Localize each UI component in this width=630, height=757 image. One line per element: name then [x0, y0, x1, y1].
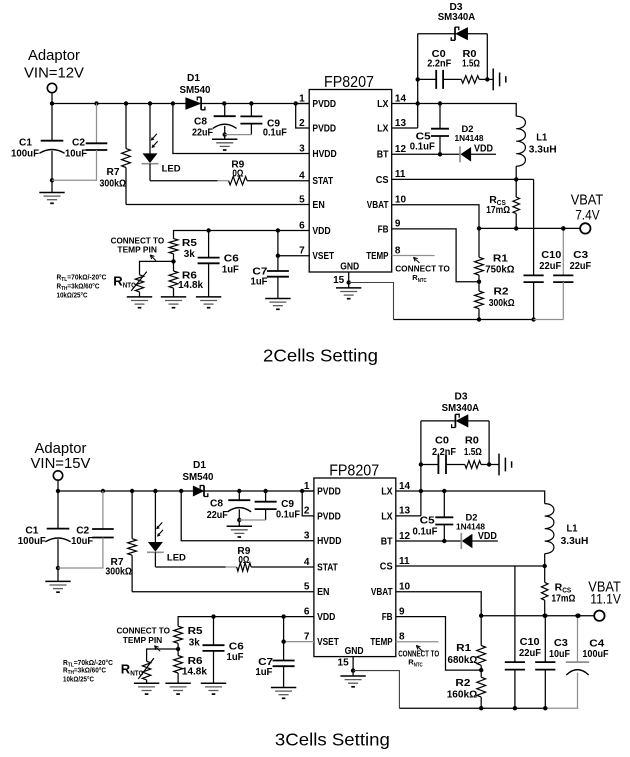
wire C2 to C1 ground join: [52, 150, 97, 180]
thermistor RNTC: [140, 261, 174, 274]
ground below C7: [265, 299, 290, 310]
inductor L1 3.3uH: [516, 116, 525, 166]
wire snubber loop left vertical: [420, 421, 422, 516]
svg-text:FB: FB: [382, 612, 393, 623]
node snubber bottom-left junction: [419, 462, 423, 466]
svg-text:RNTC: RNTC: [121, 661, 144, 677]
svg-text:D1: D1: [193, 459, 206, 471]
svg-text:3k: 3k: [189, 637, 200, 649]
wire CS pin 11: [392, 178, 534, 180]
svg-text:SM540: SM540: [183, 471, 214, 483]
svg-text:STAT: STAT: [312, 176, 333, 187]
wire snubber top: [418, 33, 455, 35]
wire GND to bottom return rail: [349, 283, 394, 320]
svg-text:2Cells Setting: 2Cells Setting: [263, 346, 378, 366]
resistor RCS 17mohm: [544, 566, 546, 582]
svg-text:8: 8: [395, 245, 401, 256]
wire VIN rail left of D1: [52, 103, 186, 105]
wire VBAT pin 10 elbow: [392, 205, 479, 229]
svg-text:CS: CS: [380, 561, 393, 572]
svg-text:10: 10: [399, 582, 411, 593]
wire VIN rail to HVDD pin 3: [173, 104, 309, 154]
svg-text:13: 13: [399, 506, 411, 517]
svg-text:22uF: 22uF: [192, 127, 213, 139]
inductor L1 3.3uH: [545, 504, 554, 554]
svg-text:R1: R1: [456, 642, 471, 654]
svg-text:BT: BT: [381, 536, 393, 547]
svg-text:1: 1: [304, 481, 310, 492]
svg-text:VSET: VSET: [312, 251, 334, 262]
ground right of R0 (rotated): [499, 454, 512, 476]
wire GND pin to ground: [348, 272, 350, 283]
svg-text:VIN=15V: VIN=15V: [31, 455, 91, 472]
svg-text:D1: D1: [187, 72, 200, 84]
terminal VBAT output: [580, 223, 590, 233]
wire VIN rail to HVDD pin 3: [181, 491, 314, 541]
wire VIN terminal to rail: [57, 480, 59, 491]
svg-text:LX: LX: [377, 123, 389, 134]
svg-text:0Ω: 0Ω: [238, 554, 249, 566]
ground below C8: [212, 139, 237, 150]
resistor R1 750k&#937;: [478, 228, 480, 257]
svg-text:12: 12: [399, 531, 411, 542]
wire snubber top: [421, 420, 456, 422]
LED indicator: [149, 104, 151, 154]
svg-text:9: 9: [395, 219, 401, 230]
svg-text:PVDD: PVDD: [312, 123, 336, 134]
svg-text:1uF: 1uF: [251, 275, 269, 287]
svg-text:C0: C0: [435, 435, 449, 447]
wire R7 to EN pin 5: [132, 591, 314, 593]
wire GND pin to ground: [352, 657, 354, 671]
wire D2 anode to VDD net: [471, 153, 496, 155]
wire CS pin 11: [396, 565, 545, 567]
svg-text:2.2nF: 2.2nF: [432, 446, 457, 458]
ground at pin 15: [336, 288, 361, 299]
svg-text:L1: L1: [536, 132, 547, 144]
capacitor C3: [562, 228, 564, 275]
svg-text:R5: R5: [182, 237, 197, 249]
capacitor C0: [418, 78, 437, 80]
svg-text:VDD: VDD: [474, 144, 493, 155]
svg-text:Adaptor: Adaptor: [28, 47, 80, 64]
capacitor C7: [277, 231, 279, 272]
capacitor C9: [250, 104, 252, 117]
capacitor C6: [208, 231, 210, 258]
wire snubber right vertical: [486, 34, 488, 80]
svg-text:13: 13: [395, 118, 407, 129]
wire D2 anode to VDD net: [472, 540, 498, 542]
svg-text:RNTC: RNTC: [408, 658, 423, 669]
svg-text:0.1uF: 0.1uF: [276, 509, 301, 521]
terminal VBAT output: [594, 611, 604, 621]
svg-text:15: 15: [333, 275, 345, 286]
svg-text:VSET: VSET: [317, 637, 339, 648]
svg-text:FB: FB: [378, 224, 389, 235]
svg-text:14.8k: 14.8k: [178, 279, 203, 291]
node snubber bottom-left junction: [416, 77, 420, 81]
capacitor C5: [439, 104, 441, 129]
svg-text:CONNECT TO: CONNECT TO: [116, 626, 170, 635]
capacitor C7: [283, 617, 285, 661]
svg-text:14: 14: [399, 481, 411, 492]
svg-text:R7: R7: [107, 166, 120, 178]
svg-text:4: 4: [299, 171, 305, 182]
svg-text:BT: BT: [377, 150, 389, 161]
svg-text:R5: R5: [188, 625, 203, 637]
svg-text:FP8207: FP8207: [329, 463, 379, 480]
svg-text:PVDD: PVDD: [317, 511, 341, 522]
diode D2 1N4148: [459, 146, 461, 162]
svg-text:1N4148: 1N4148: [455, 133, 484, 143]
svg-text:680kΩ: 680kΩ: [448, 654, 478, 666]
wire VDD pin 6 to R5: [174, 231, 310, 239]
ground below RNTC: [134, 683, 159, 694]
svg-text:14: 14: [395, 93, 407, 104]
resistor R9: [229, 177, 248, 185]
capacitor C2: [96, 104, 98, 144]
svg-text:100uF: 100uF: [582, 648, 609, 660]
capacitor C2: [102, 491, 104, 529]
svg-text:HVDD: HVDD: [312, 149, 336, 160]
wire LX pin 14 to inductor: [396, 491, 545, 504]
svg-text:R0: R0: [465, 435, 479, 447]
wire TEMP pin 8 stub: [396, 641, 439, 643]
svg-text:R2: R2: [455, 677, 470, 689]
svg-text:TEMP PIN: TEMP PIN: [117, 246, 157, 255]
svg-text:0.1uF: 0.1uF: [263, 127, 288, 139]
svg-text:300kΩ: 300kΩ: [105, 566, 131, 578]
wire FB pin 9 to divider: [396, 617, 481, 671]
resistor R6 14.8k: [177, 649, 179, 656]
svg-text:4: 4: [304, 557, 310, 568]
wire R9 to STAT pin 4: [247, 180, 309, 182]
svg-text:3Cells Setting: 3Cells Setting: [275, 730, 390, 750]
wire ground return rail: [394, 319, 534, 321]
node VIN rail junctions: [50, 101, 54, 105]
svg-text:3.3uH: 3.3uH: [561, 535, 589, 547]
svg-text:VDD: VDD: [312, 226, 330, 237]
svg-text:LX: LX: [381, 511, 393, 522]
svg-text:R2: R2: [494, 286, 509, 298]
svg-text:3: 3: [299, 143, 305, 154]
terminal VIN adaptor input: [47, 83, 56, 92]
wire VIN rail left of D1: [58, 490, 193, 492]
capacitor C10 (CS net to ground): [514, 566, 516, 662]
svg-text:22uF: 22uF: [539, 260, 562, 272]
svg-text:CS: CS: [376, 175, 389, 186]
svg-text:1: 1: [299, 93, 305, 104]
wire VIN terminal to rail: [51, 92, 53, 103]
thermistor RNTC: [147, 649, 179, 661]
svg-text:TEMP: TEMP: [366, 251, 388, 262]
capacitor C3: [544, 616, 546, 662]
svg-text:12: 12: [395, 144, 407, 155]
svg-text:VDD: VDD: [478, 531, 497, 542]
diode D1 SM540: [193, 486, 204, 496]
wire BT pin 12 to D2: [392, 153, 460, 155]
svg-text:9: 9: [399, 606, 405, 617]
wire VBAT rail: [479, 227, 563, 229]
svg-text:VBAT: VBAT: [371, 587, 393, 598]
svg-text:22uF: 22uF: [207, 509, 228, 521]
diode D3 SM340A: [456, 415, 468, 427]
svg-text:SM340A: SM340A: [438, 11, 476, 23]
svg-text:LX: LX: [381, 486, 393, 497]
wire LX pin 13 stub: [392, 127, 418, 129]
wire LX pin 14 to inductor: [392, 104, 517, 117]
svg-text:1uF: 1uF: [222, 263, 240, 275]
svg-text:SM340A: SM340A: [442, 402, 480, 414]
arrow to R5/R6 junction: [155, 646, 161, 652]
svg-text:FP8207: FP8207: [324, 74, 374, 91]
resistor RCS 17mohm: [515, 179, 517, 197]
svg-text:EN: EN: [312, 200, 324, 211]
svg-text:100uF: 100uF: [11, 148, 40, 160]
svg-text:LED: LED: [162, 164, 181, 175]
svg-text:EN: EN: [317, 587, 329, 598]
wire LED to R9: [150, 180, 218, 182]
svg-text:CONNECT TO: CONNECT TO: [111, 237, 165, 246]
svg-text:D3: D3: [455, 391, 468, 403]
svg-text:0.1uF: 0.1uF: [413, 526, 439, 538]
svg-text:C8: C8: [210, 498, 223, 510]
svg-text:750kΩ: 750kΩ: [485, 264, 514, 276]
svg-text:5: 5: [299, 194, 305, 205]
svg-text:RNTC: RNTC: [412, 273, 427, 284]
svg-text:1.5Ω: 1.5Ω: [464, 446, 482, 458]
ground below C1: [39, 193, 64, 204]
svg-text:14.8k: 14.8k: [182, 666, 207, 678]
svg-text:10uF: 10uF: [65, 148, 88, 160]
svg-text:100uF: 100uF: [18, 535, 47, 547]
svg-text:2: 2: [304, 506, 310, 517]
resistor R0: [461, 76, 479, 84]
svg-text:15: 15: [338, 658, 350, 669]
svg-text:HVDD: HVDD: [317, 536, 341, 547]
capacitor C5: [443, 491, 445, 517]
svg-text:11: 11: [395, 169, 406, 180]
wire VSET pin 7 to C7: [278, 255, 309, 257]
svg-text:CONNECT TO: CONNECT TO: [398, 650, 439, 659]
svg-text:300kΩ: 300kΩ: [100, 178, 127, 190]
wire TEMP pin 8 stub: [392, 255, 435, 257]
diode D3 SM340A: [456, 28, 468, 40]
wire FB pin 9 to divider: [392, 229, 479, 282]
wire VDD pin 6 to R5: [178, 617, 314, 627]
node VIN rail junctions: [56, 489, 60, 493]
capacitor C9: [265, 491, 267, 502]
svg-text:22uF: 22uF: [519, 647, 542, 659]
svg-text:1uF: 1uF: [227, 651, 245, 663]
capacitor C10 (CS net to ground): [533, 179, 535, 275]
wire BT pin 12 to D2: [396, 540, 462, 542]
svg-text:CONNECT TO: CONNECT TO: [395, 264, 450, 274]
svg-text:22uF: 22uF: [570, 260, 592, 272]
svg-text:TEMP: TEMP: [370, 637, 392, 648]
svg-text:2.2nF: 2.2nF: [427, 58, 452, 70]
svg-text:17mΩ: 17mΩ: [551, 593, 575, 605]
capacitor C1: [57, 491, 59, 529]
svg-text:7: 7: [304, 631, 310, 642]
svg-text:5: 5: [304, 582, 310, 593]
svg-text:11: 11: [399, 556, 410, 567]
diode D2 1N4148: [460, 533, 462, 549]
svg-text:TEMP PIN: TEMP PIN: [123, 636, 163, 645]
wire rail to PVDD pin 2: [302, 491, 314, 516]
resistor R5 3k: [174, 626, 183, 643]
svg-text:1.5Ω: 1.5Ω: [462, 58, 480, 70]
wire GND to bottom return rail: [353, 671, 399, 709]
resistor R1 680k&#937;: [480, 616, 482, 646]
wire VBAT rail: [481, 615, 578, 617]
capacitor C8: [224, 104, 226, 117]
svg-text:17mΩ: 17mΩ: [486, 204, 510, 216]
svg-text:GND: GND: [345, 646, 364, 657]
svg-text:3.3uH: 3.3uH: [529, 143, 557, 155]
wire VIN rail right of D1 to pin 1: [204, 490, 314, 492]
resistor R2 300k&#937;: [478, 282, 480, 291]
svg-text:LED: LED: [167, 552, 186, 563]
wire rail to PVDD pin 2: [296, 104, 310, 129]
svg-text:VDD: VDD: [317, 612, 335, 623]
resistor R7: [131, 491, 133, 539]
svg-text:PVDD: PVDD: [317, 486, 341, 497]
ground below R6: [165, 683, 190, 694]
arrow to R5/R6 junction: [150, 255, 156, 261]
svg-text:10uF: 10uF: [71, 535, 94, 547]
wire LX pin 13 stub: [396, 515, 421, 517]
svg-text:0Ω: 0Ω: [232, 168, 243, 180]
svg-text:RNTC: RNTC: [113, 274, 136, 290]
svg-text:11.1V: 11.1V: [590, 591, 621, 607]
wire R0 to snubber ground: [481, 464, 499, 466]
wire VBAT pin 10 elbow: [396, 592, 481, 616]
svg-text:1uF: 1uF: [255, 666, 273, 678]
svg-text:6: 6: [299, 220, 305, 231]
capacitor C1: [51, 104, 53, 141]
ground below C7: [271, 688, 296, 699]
ground right of R0 (rotated): [493, 69, 506, 91]
svg-text:7.4V: 7.4V: [575, 206, 600, 222]
svg-text:2: 2: [299, 118, 305, 129]
wire VSET pin 7 to C7: [284, 641, 314, 643]
op-amp U1 FP8207 charger IC: [314, 478, 396, 657]
wire snubber loop left vertical: [417, 34, 419, 128]
wire ground return rail: [399, 707, 544, 709]
svg-text:SM540: SM540: [180, 84, 211, 96]
svg-text:7: 7: [299, 246, 305, 257]
resistor R5 3k: [169, 239, 178, 254]
wire snubber right vertical: [488, 421, 490, 465]
capacitor C8: [238, 491, 240, 500]
wire LED to R9: [155, 566, 225, 568]
svg-text:300kΩ: 300kΩ: [489, 297, 515, 309]
resistor R7: [125, 104, 127, 149]
svg-text:LX: LX: [377, 99, 389, 110]
ground below C8: [227, 526, 252, 537]
resistor R6 14.8k: [173, 261, 175, 271]
resistor R2 160k&#937;: [480, 670, 482, 677]
svg-text:VIN=12V: VIN=12V: [24, 64, 84, 81]
capacitor C4: [577, 616, 579, 662]
ground below RNTC: [127, 297, 152, 308]
svg-text:8: 8: [399, 632, 405, 643]
ground below C1: [45, 581, 70, 592]
wire C2 to C1 ground join: [58, 538, 103, 569]
svg-text:10kΩ/25°C: 10kΩ/25°C: [63, 675, 94, 684]
resistor R9: [237, 563, 251, 571]
svg-text:10kΩ/25°C: 10kΩ/25°C: [57, 290, 88, 299]
svg-text:3: 3: [304, 531, 310, 542]
svg-text:10uF: 10uF: [549, 648, 570, 660]
svg-text:0.1uF: 0.1uF: [410, 141, 436, 153]
svg-text:L1: L1: [567, 523, 578, 535]
wire R0 to snubber ground: [479, 78, 493, 80]
wire rail to PVDD pin 1: [302, 490, 314, 492]
svg-text:160kΩ: 160kΩ: [447, 689, 478, 701]
svg-text:6: 6: [304, 606, 310, 617]
ground below C6: [196, 297, 221, 308]
wire VIN rail right of D1 to pin 1: [201, 103, 309, 105]
diode D1 SM540: [186, 98, 201, 110]
arrow to TEMP pin: [416, 646, 422, 652]
ground at pin 15: [340, 676, 365, 687]
wire R9 to STAT pin 4: [251, 566, 314, 568]
ground below C6: [201, 683, 226, 694]
svg-text:PVDD: PVDD: [312, 99, 336, 110]
ground below R6: [161, 297, 186, 308]
svg-text:1N4148: 1N4148: [456, 522, 485, 532]
svg-text:3k: 3k: [184, 248, 195, 260]
svg-text:10: 10: [395, 195, 407, 206]
svg-text:STAT: STAT: [317, 562, 338, 573]
op-amp U1 FP8207 charger IC: [309, 90, 392, 273]
svg-text:GND: GND: [340, 262, 359, 273]
wire rail to PVDD pin 1: [296, 103, 310, 105]
svg-text:VBAT: VBAT: [367, 200, 389, 211]
LED indicator: [154, 491, 156, 542]
arrow to TEMP pin: [414, 257, 420, 263]
capacitor C0: [421, 464, 439, 466]
wire R7 to EN pin 5: [126, 204, 309, 206]
resistor R0: [465, 461, 481, 469]
capacitor C6: [213, 617, 215, 646]
terminal VIN adaptor input: [53, 471, 62, 480]
